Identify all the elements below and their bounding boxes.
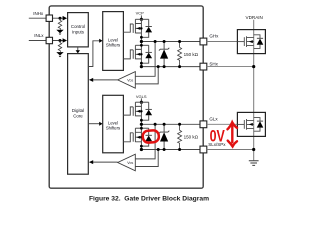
- wire VDRAIN vertical to ground: [253, 20, 255, 161]
- transistor M1 high-side source PMOS: [123, 19, 148, 41]
- pin SLx/SPx: [200, 146, 207, 153]
- wire SHx to external midpoint: [207, 66, 254, 68]
- block Control Inputs: [68, 13, 89, 47]
- node INLx junction: [59, 39, 62, 42]
- arrow into Control Inputs (INHx): [63, 16, 68, 21]
- wire A1 output to Digital Core: [93, 79, 118, 81]
- diode DQ2 body diode: [257, 120, 263, 122]
- chip outline: [49, 6, 203, 188]
- wire SLx to external source: [207, 149, 254, 151]
- ground: [249, 161, 259, 166]
- transistor M3 low-side source PMOS: [123, 102, 148, 124]
- wire GLx rail: [141, 123, 200, 125]
- wire Control Inputs to Digital Core: [77, 47, 79, 51]
- resistor R2 150k GLx-SLx: [178, 124, 182, 149]
- pin GLx: [200, 121, 207, 128]
- op-amp A2 Vds monitor low-side: [118, 154, 136, 171]
- svg-text:Figure 32. Gate Driver Block: Figure 32. Gate Driver Block Diagram: [89, 196, 209, 203]
- block Digital Core: [68, 54, 89, 175]
- pin INLx: [46, 37, 52, 43]
- transistor M4 low-side sink NMOS: [123, 124, 148, 150]
- diode D2 body diode: [146, 51, 152, 53]
- wire VGLS stub: [140, 98, 142, 102]
- svg-text:Core: Core: [73, 113, 83, 118]
- diode Z1 zener clamp GHx-SHx: [163, 42, 165, 67]
- red circle annotation around D4: [142, 130, 159, 143]
- resistor pulldown INLx: [58, 41, 61, 52]
- transistor Q1 external high-side FET: [237, 30, 265, 54]
- pin GHx: [200, 38, 207, 45]
- wire A1 input- to SHx: [135, 67, 158, 84]
- wire GHx rail: [141, 41, 200, 43]
- svg-text:SHx: SHx: [209, 62, 218, 67]
- svg-text:VDRAIN: VDRAIN: [246, 15, 263, 20]
- wire Digital Core to Level Shifters 2: [88, 123, 99, 125]
- resistor pulldown INHx: [58, 18, 61, 29]
- wire GHx to external gate: [207, 41, 238, 43]
- svg-text:Inputs: Inputs: [72, 29, 85, 34]
- arrow into Control Inputs (INLx): [63, 38, 68, 43]
- diode DQ1 body diode: [257, 37, 263, 39]
- block Level Shifters 2: [103, 95, 124, 153]
- svg-text:VGLS: VGLS: [136, 94, 147, 99]
- diode D3 body diode: [146, 108, 152, 110]
- node INHx junction: [59, 17, 62, 20]
- svg-text:INLx: INLx: [34, 33, 44, 38]
- wire SLx rail: [141, 149, 200, 151]
- red double arrow annotation: [228, 122, 238, 146]
- ground arrow INLx: [56, 52, 63, 55]
- ground arrow INHx: [56, 30, 63, 33]
- wire Digital Core to Level Shifters 1: [88, 41, 99, 67]
- svg-text:150 kΩ: 150 kΩ: [184, 52, 199, 57]
- diode D1 body diode: [146, 26, 152, 28]
- pin SHx: [200, 63, 207, 70]
- pin INHx: [46, 15, 52, 21]
- svg-text:Shifters: Shifters: [106, 42, 120, 47]
- wire A2 input+ to GLx: [135, 124, 155, 159]
- svg-text:VDS: VDS: [127, 78, 133, 82]
- diode Z2 zener clamp GLx-SLx: [163, 124, 165, 149]
- wire A2 output to Digital Core: [93, 161, 118, 163]
- svg-text:GHx: GHx: [209, 34, 219, 39]
- wire INHx input: [29, 17, 64, 19]
- svg-text:VCP: VCP: [136, 11, 145, 16]
- wire A2 input- to SLx: [135, 150, 158, 167]
- wire SHx rail: [141, 66, 200, 68]
- wire VCP stub: [140, 15, 142, 19]
- svg-text:0V: 0V: [210, 128, 225, 146]
- svg-text:VDS: VDS: [127, 161, 133, 165]
- svg-text:150 kΩ: 150 kΩ: [184, 135, 199, 140]
- op-amp A1 Vds monitor high-side: [118, 72, 136, 89]
- wire GLx to external gate: [207, 123, 238, 125]
- resistor R1 150k GHx-SHx: [178, 42, 182, 67]
- block Level Shifters 1: [103, 12, 124, 71]
- diode D4 body diode: [146, 134, 152, 136]
- wire INLx input: [29, 40, 64, 42]
- wire A1 input+ to GHx: [135, 42, 155, 77]
- svg-text:INHx: INHx: [33, 11, 44, 16]
- svg-text:GLx: GLx: [209, 117, 218, 122]
- svg-text:Shifters: Shifters: [106, 126, 120, 131]
- transistor Q2 external low-side FET: [237, 112, 265, 136]
- transistor M2 high-side sink NMOS: [123, 42, 148, 68]
